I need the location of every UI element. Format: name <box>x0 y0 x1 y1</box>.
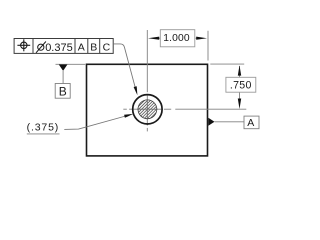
svg-text:(.375): (.375) <box>27 122 60 134</box>
.750 dimension top arrowhead <box>238 65 241 75</box>
svg-text:C: C <box>103 42 111 54</box>
svg-text:1.000: 1.000 <box>163 33 190 44</box>
svg-text:.750: .750 <box>230 80 252 92</box>
1.000 dimension line left segment <box>155 37 161 39</box>
svg-text:A: A <box>78 42 85 54</box>
1.000 right extension line <box>207 31 209 61</box>
leader from FCF to hole <box>113 44 136 92</box>
.750 dimension line lower segment <box>239 92 241 102</box>
1.000 dimension right arrowhead <box>196 37 207 40</box>
position symbol <box>17 39 30 51</box>
.750 dimension line upper segment <box>239 66 241 77</box>
.750 basic dimension box <box>226 77 256 92</box>
leader (.375) arrowhead <box>124 114 133 118</box>
datum A triangle <box>208 118 214 126</box>
datum B stem <box>62 71 64 84</box>
reference dimension underline <box>27 133 60 135</box>
svg-text:A: A <box>247 117 254 129</box>
leader arrowhead at hole <box>134 86 138 95</box>
datum B triangle <box>59 65 68 71</box>
part outline rectangle <box>87 64 208 156</box>
centerline vertical (also extension line for 1.000) <box>146 30 148 131</box>
hole outer circle <box>133 95 162 124</box>
svg-text:B: B <box>90 42 97 54</box>
centerline horizontal (also extension line for .750) <box>123 108 246 110</box>
leader from (.375) to hole <box>64 116 127 130</box>
svg-text:B: B <box>59 84 67 98</box>
datum A stem <box>215 121 245 123</box>
1.000 basic dimension box <box>160 30 195 47</box>
1.000 dimension left arrowhead <box>148 37 159 40</box>
diameter symbol in FCF <box>36 42 46 53</box>
feature control frame box <box>14 39 113 54</box>
.750 dimension bottom arrowhead <box>238 99 241 110</box>
centerline cross over hatch <box>146 99 148 120</box>
svg-text:0.375: 0.375 <box>45 42 73 54</box>
datum B box <box>55 84 70 99</box>
datum A box <box>244 116 259 129</box>
hole inner hatched circle <box>138 100 157 119</box>
datum B extension line <box>56 63 86 65</box>
.750 top extension line <box>210 63 244 65</box>
1.000 dimension line right segment <box>196 37 202 39</box>
